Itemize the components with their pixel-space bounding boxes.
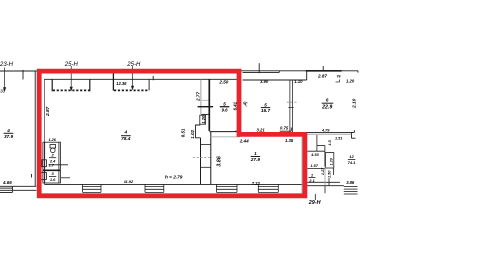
svg-text:12.36: 12.36 <box>116 81 127 86</box>
svg-text:2.1: 2.1 <box>308 178 315 183</box>
svg-text:29-Н: 29-Н <box>308 200 321 206</box>
svg-text:12: 12 <box>349 154 354 159</box>
svg-text:30: 30 <box>0 89 6 94</box>
svg-text:5: 5 <box>223 101 226 106</box>
svg-text:2.44: 2.44 <box>239 138 249 143</box>
svg-text:1.27: 1.27 <box>321 167 325 175</box>
svg-text:1.10: 1.10 <box>294 79 303 84</box>
svg-text:1.7: 1.7 <box>49 163 55 167</box>
svg-text:78.4: 78.4 <box>121 136 131 142</box>
svg-text:2.10: 2.10 <box>351 98 357 109</box>
svg-text:1.6: 1.6 <box>50 177 56 182</box>
svg-text:1.35: 1.35 <box>285 138 294 143</box>
svg-text:2.77: 2.77 <box>195 91 200 102</box>
svg-text:7.22: 7.22 <box>252 181 261 186</box>
svg-text:0.75: 0.75 <box>280 126 289 131</box>
svg-text:16.7: 16.7 <box>261 108 271 114</box>
svg-text:2.87: 2.87 <box>317 74 327 79</box>
svg-text:1.5: 1.5 <box>328 139 332 145</box>
svg-text:h = 2.79: h = 2.79 <box>165 175 183 180</box>
svg-text:1.20: 1.20 <box>201 115 206 124</box>
svg-text:1.20: 1.20 <box>329 157 333 165</box>
svg-text:3: 3 <box>51 171 54 176</box>
svg-text:,4): ,4) <box>242 101 247 107</box>
svg-text:76: 76 <box>337 75 342 79</box>
svg-text:3.21: 3.21 <box>257 127 266 132</box>
svg-text:2.87: 2.87 <box>45 106 51 117</box>
svg-text:1.50: 1.50 <box>327 170 331 178</box>
svg-text:1.26: 1.26 <box>49 138 57 142</box>
svg-text:1: 1 <box>311 172 314 177</box>
svg-text:3.86: 3.86 <box>216 155 222 166</box>
svg-text:25-Н: 25-Н <box>64 62 79 68</box>
svg-text:8.51: 8.51 <box>181 128 186 137</box>
svg-text:22.9: 22.9 <box>321 105 332 111</box>
svg-text:4.79: 4.79 <box>321 129 330 133</box>
svg-text:5: 5 <box>264 102 267 107</box>
svg-text:37.9: 37.9 <box>4 134 14 139</box>
svg-text:4.66: 4.66 <box>2 180 12 185</box>
svg-text:9.6: 9.6 <box>221 107 228 112</box>
svg-text:1.20: 1.20 <box>346 78 355 83</box>
svg-text:3.86: 3.86 <box>346 180 355 185</box>
svg-text:23-Н: 23-Н <box>0 62 14 68</box>
svg-text:2.50: 2.50 <box>218 80 228 85</box>
svg-text:1: 1 <box>254 151 257 156</box>
svg-text:1.57: 1.57 <box>311 164 319 168</box>
svg-text:27.9: 27.9 <box>250 157 261 163</box>
svg-text:11.92: 11.92 <box>124 179 134 184</box>
svg-text:3.90: 3.90 <box>260 79 269 84</box>
svg-text:4.53: 4.53 <box>310 153 319 157</box>
svg-text:74.1: 74.1 <box>348 160 357 165</box>
svg-text:4: 4 <box>6 128 10 133</box>
svg-text:2.4: 2.4 <box>49 158 56 163</box>
svg-text:25-Н: 25-Н <box>126 62 141 68</box>
svg-text:1.02: 1.02 <box>190 129 195 138</box>
svg-text:1.51: 1.51 <box>335 137 342 141</box>
svg-text:4: 4 <box>124 129 128 134</box>
svg-text:2: 2 <box>50 153 54 158</box>
svg-text:6: 6 <box>326 98 329 103</box>
